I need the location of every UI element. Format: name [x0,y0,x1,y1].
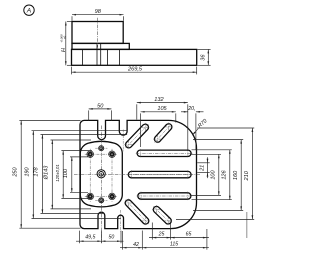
dimension 190 left [32,131,34,219]
boss corner hole top-right [109,151,116,158]
horizontal slot H3 [138,193,191,199]
boss square pad outline [80,141,122,206]
horizontal slot H1 [137,150,191,156]
horizontal centerline [74,174,200,176]
boss vertical centerline [100,126,102,244]
svg-text:A: A [26,8,32,15]
dimension 105 extension lines [140,113,142,147]
side view boss block [72,22,123,44]
dimension 250 left [20,121,22,229]
svg-text:50: 50 [97,103,104,109]
dimension 269.5 [72,71,197,73]
svg-text:50: 50 [109,234,115,240]
dimension 36 extension lines [198,48,211,50]
svg-text:65: 65 [186,231,192,237]
dimension 178 left [41,135,43,214]
svg-text:49,5: 49,5 [85,234,95,240]
side view slot edge lines in strip [81,49,83,65]
svg-text:126: 126 [222,169,228,179]
bottom notch2 centerline [120,210,122,232]
dimension 132 [137,102,188,104]
diagonal slot B1 bottom [125,200,149,224]
svg-text:115: 115 [170,242,178,248]
dimension 160 right [240,140,242,211]
boss corner hole bottom-left [87,193,94,200]
plan view plate outline with notches and R70 corners [80,120,197,228]
svg-text:269,5: 269,5 [127,66,143,72]
svg-text:25: 25 [158,231,165,237]
side view middle flange band [72,43,129,49]
side view centerline [97,18,99,48]
boss center hole [97,170,105,178]
dimension 100 left [71,157,73,192]
side view base strip [72,49,197,65]
right faint vertical line [246,212,248,238]
right extension lines [197,127,254,129]
dimension 100 right [218,154,220,195]
dimension 132 extension lines [136,104,138,119]
view label A circle [24,5,34,15]
dimension Ø143 left [51,140,53,209]
svg-text:190: 190 [25,166,31,176]
svg-text:178: 178 [34,166,40,176]
dimension 98 [72,14,124,16]
dimension 210 right [251,128,253,219]
boss bottom center hole [99,198,104,203]
bottom extension lines row1 [79,231,81,244]
svg-text:100: 100 [210,169,216,179]
svg-text:Ø143: Ø143 [44,165,50,181]
svg-text:160: 160 [233,170,239,180]
dimension 36 [207,49,209,65]
boss top center hole [99,146,104,151]
bottom extension lines row3 [122,231,124,250]
diagonal slot D1 top [125,124,148,148]
bottom extension lines row2 [151,223,153,240]
diagonal slot B2 bottom [153,206,171,224]
dimension 98 extension lines [71,16,73,21]
radius label R70 with leader [192,129,198,136]
boss corner hole top-left [87,151,94,158]
left extension lines [19,120,80,122]
dimension 25 and 65 bottom [149,237,209,239]
svg-text:-0.008: -0.008 [60,34,64,43]
dimension 42 and 115 bottom [120,247,209,249]
svg-text:36: 36 [201,54,207,61]
svg-text:42: 42 [133,242,139,248]
svg-text:120±0,01: 120±0,01 [55,164,60,181]
dimension 49.5 and 50 bottom [76,240,124,242]
dimension 50 top [89,108,112,110]
horizontal slot H2 center [128,171,191,177]
svg-text:210: 210 [244,170,250,181]
svg-text:20,: 20, [187,106,195,112]
dimension 269.5 extension lines [71,67,73,75]
corner holes centerlines [89,149,91,202]
dimension H tolerance extension lines [67,21,72,23]
dimension 120±0,01 left [62,151,64,199]
dimension H +0/-0.008 [65,22,67,66]
dimension 105 [141,111,176,113]
dimension 50 extension lines [88,110,90,121]
diagonal slot D2 top [154,124,171,143]
svg-text:98: 98 [95,9,102,15]
dimension 126 right [229,150,231,200]
dimension 20 outside arrows [195,113,197,150]
svg-text:100: 100 [63,168,69,178]
boss corner hole bottom-right [109,193,116,200]
svg-text:105: 105 [157,106,167,112]
dimension 21 right [207,157,209,178]
svg-text:21: 21 [199,165,205,172]
svg-text:132: 132 [154,97,164,103]
svg-text:250: 250 [13,166,19,177]
top notch2 centerline [122,130,124,153]
